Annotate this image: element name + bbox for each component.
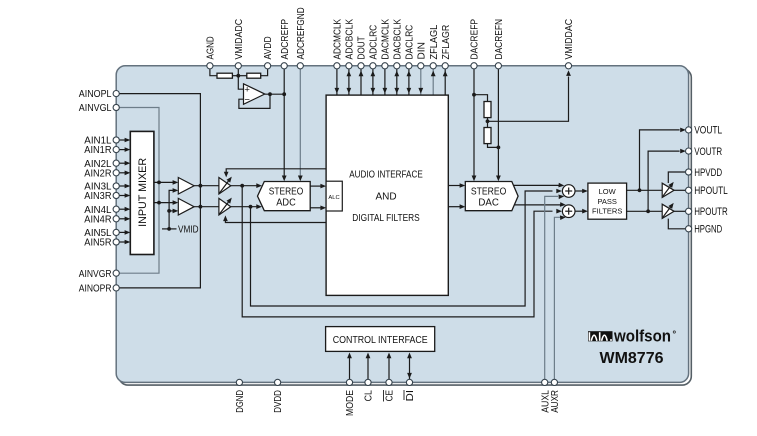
- svg-text:AVDD: AVDD: [263, 36, 274, 59]
- svg-text:AUXR: AUXR: [550, 390, 561, 413]
- svg-text:DGND: DGND: [235, 390, 246, 413]
- svg-text:VOUTL: VOUTL: [694, 125, 722, 137]
- svg-text:VMIDDAC: VMIDDAC: [564, 19, 575, 60]
- svg-text:FILTERS: FILTERS: [592, 207, 622, 216]
- svg-text:INPUT MIXER: INPUT MIXER: [137, 158, 149, 227]
- svg-text:LOW: LOW: [599, 187, 617, 196]
- svg-text:STEREO: STEREO: [471, 186, 507, 197]
- svg-text:DACREFN: DACREFN: [494, 19, 505, 60]
- svg-text:DVDD: DVDD: [273, 390, 284, 413]
- svg-text:DAC: DAC: [478, 197, 499, 208]
- svg-text:HPGND: HPGND: [694, 224, 722, 236]
- svg-text:DOUT: DOUT: [357, 36, 368, 59]
- svg-text:AGND: AGND: [206, 36, 217, 59]
- svg-text:AIN4R: AIN4R: [84, 213, 112, 225]
- svg-text:AINVGR: AINVGR: [79, 268, 112, 280]
- svg-text:AUDIO INTERFACE: AUDIO INTERFACE: [349, 170, 423, 181]
- svg-text:DACREFP: DACREFP: [470, 19, 481, 60]
- svg-text:ALC: ALC: [328, 195, 339, 201]
- svg-text:VOUTR: VOUTR: [694, 146, 722, 158]
- svg-text:ADCLRC: ADCLRC: [369, 25, 380, 60]
- svg-text:ADCMCLK: ADCMCLK: [333, 19, 344, 60]
- svg-text:ADCREFP: ADCREFP: [280, 19, 291, 60]
- svg-text:AINOPR: AINOPR: [79, 283, 112, 295]
- svg-text:DI: DI: [405, 390, 416, 401]
- svg-text:ADCBCLK: ADCBCLK: [345, 19, 356, 60]
- svg-text:ZFLAGL: ZFLAGL: [429, 24, 440, 59]
- svg-text:MODE: MODE: [345, 390, 356, 416]
- svg-text:HPOUTR: HPOUTR: [694, 206, 728, 218]
- svg-text:AIN5R: AIN5R: [84, 237, 112, 249]
- svg-text:−: −: [244, 95, 250, 106]
- svg-text:ZFLAGR: ZFLAGR: [441, 25, 452, 60]
- svg-text:AINOPL: AINOPL: [79, 88, 112, 100]
- svg-text:AIN2R: AIN2R: [84, 167, 112, 179]
- svg-text:ADC: ADC: [276, 197, 296, 208]
- svg-text:WM8776: WM8776: [600, 350, 664, 367]
- svg-text:AIN1R: AIN1R: [84, 144, 112, 156]
- svg-text:HPOUTL: HPOUTL: [694, 185, 728, 197]
- svg-text:PASS: PASS: [597, 197, 616, 206]
- svg-text:AIN3R: AIN3R: [84, 190, 112, 202]
- svg-text:CONTROL INTERFACE: CONTROL INTERFACE: [333, 335, 428, 346]
- svg-text:DACLRC: DACLRC: [405, 25, 416, 60]
- svg-text:DACBCLK: DACBCLK: [392, 19, 403, 60]
- svg-text:STEREO: STEREO: [269, 186, 304, 197]
- svg-text:DIN: DIN: [416, 42, 427, 59]
- svg-text:AINVGL: AINVGL: [79, 102, 112, 114]
- svg-text:VMIDADC: VMIDADC: [234, 19, 245, 60]
- svg-text:CE: CE: [385, 390, 396, 402]
- svg-text:wolfson: wolfson: [613, 327, 671, 346]
- svg-text:HPVDD: HPVDD: [694, 167, 722, 179]
- svg-text:DACMCLK: DACMCLK: [381, 19, 392, 60]
- svg-text:DIGITAL FILTERS: DIGITAL FILTERS: [352, 213, 420, 224]
- svg-text:VMID: VMID: [178, 224, 199, 236]
- svg-text:AND: AND: [375, 191, 396, 202]
- svg-text:CL: CL: [364, 390, 375, 402]
- svg-text:ADCREFGND: ADCREFGND: [296, 7, 307, 59]
